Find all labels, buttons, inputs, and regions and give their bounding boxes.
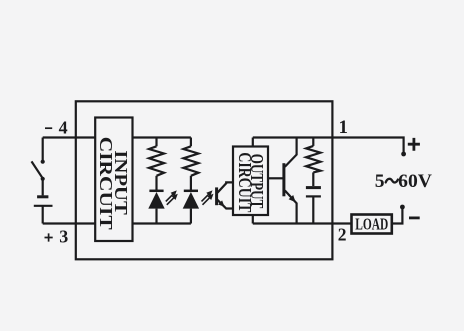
wire branch1 top bbox=[155, 138, 157, 147]
output circuit block bbox=[233, 147, 268, 216]
LED1 emission arrows bbox=[166, 190, 178, 204]
phototransistor Q1 bbox=[217, 182, 233, 208]
wire LED2 to bottom rail bbox=[190, 209, 192, 224]
wire LED1 to bottom rail bbox=[155, 209, 157, 224]
wire LOAD to - terminal bbox=[392, 209, 403, 224]
transistor Q2 base wire bbox=[268, 177, 283, 179]
wire output bottom rail to LOAD bbox=[253, 222, 352, 224]
outer SSR case bbox=[76, 101, 333, 259]
wire battery to bottom lead bbox=[42, 206, 44, 224]
wire output box top stub to rail bbox=[252, 138, 254, 147]
battery B1 bbox=[34, 197, 53, 206]
switch S1 bbox=[32, 160, 45, 181]
wire switch top lead bbox=[42, 138, 44, 161]
wire R2 to LED2 bbox=[190, 176, 192, 191]
LED D1 bbox=[148, 191, 164, 209]
resistor R2 bbox=[183, 146, 198, 176]
LED D2 bbox=[183, 191, 199, 209]
resistor R1 bbox=[149, 146, 164, 176]
label minus right bbox=[409, 216, 420, 219]
snubber resistor R3 bbox=[306, 138, 320, 187]
svg-text:1: 1 bbox=[339, 117, 349, 138]
wire bottom-left (terminal 3 lead) bbox=[43, 222, 95, 224]
svg-text:CIRCUIT: CIRCUIT bbox=[235, 152, 255, 212]
snubber capacitor C1 bbox=[306, 188, 321, 224]
label plus left bbox=[45, 233, 53, 241]
+ terminal dot bbox=[401, 152, 406, 157]
wire input top rail bbox=[133, 136, 191, 138]
input circuit block bbox=[95, 118, 132, 242]
label INPUT CIRCUIT bbox=[96, 137, 131, 230]
wire switch to battery bbox=[42, 179, 44, 196]
wire R1 to LED1 bbox=[155, 176, 157, 191]
label plus right bbox=[408, 138, 420, 151]
svg-text:CIRCUIT: CIRCUIT bbox=[96, 137, 116, 230]
wire branch2 top bbox=[190, 138, 192, 147]
label OUTPUT CIRCUIT bbox=[235, 152, 267, 212]
transistor Q2 bbox=[284, 138, 297, 224]
LED2 to phototransistor light arrows bbox=[202, 190, 214, 204]
wire top-left (terminal 4 lead) bbox=[43, 136, 95, 138]
wire input bottom rail bbox=[133, 222, 191, 224]
svg-text:LOAD: LOAD bbox=[355, 215, 388, 234]
svg-text:60V: 60V bbox=[398, 172, 432, 192]
- terminal dot bbox=[400, 205, 405, 210]
svg-text:5: 5 bbox=[375, 172, 385, 192]
wire output top rail to + terminal bbox=[253, 138, 404, 153]
wire output box bottom stub bbox=[252, 215, 254, 224]
svg-text:2: 2 bbox=[338, 225, 347, 245]
label minus left bbox=[45, 127, 52, 129]
svg-text:3: 3 bbox=[59, 227, 68, 247]
svg-text:4: 4 bbox=[59, 118, 68, 138]
LOAD box bbox=[352, 215, 392, 234]
tilde of 5~60V bbox=[386, 179, 398, 183]
